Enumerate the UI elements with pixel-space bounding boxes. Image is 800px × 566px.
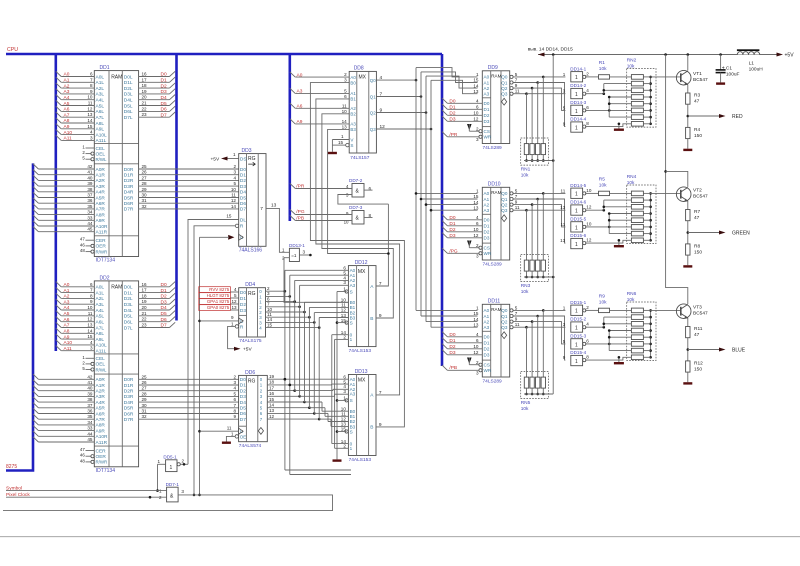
svg-text:11: 11 (561, 188, 566, 193)
wire address A1R from 8275 bus (33, 380, 94, 385)
svg-text:A11L: A11L (96, 138, 107, 144)
svg-text:23: 23 (142, 323, 148, 328)
DD13 strobe bubbles (345, 399, 348, 433)
svg-text:Q2: Q2 (370, 110, 376, 115)
svg-text:15: 15 (473, 194, 479, 199)
wire control stub (82, 156, 94, 161)
svg-text:B0: B0 (350, 80, 356, 85)
wire DD12 output B to DD8 B1 (322, 114, 393, 318)
wire address A10 from CPU bus (56, 129, 95, 135)
output arrow BLUE (688, 348, 746, 354)
svg-text:74ALS166: 74ALS166 (239, 247, 263, 253)
svg-text:9: 9 (380, 107, 383, 113)
DD3 DL wire to DD5-1 output (188, 213, 239, 464)
svg-text:D3: D3 (484, 353, 490, 358)
svg-text:D1L: D1L (124, 290, 133, 296)
svg-text:11: 11 (561, 222, 566, 227)
wire DD8 output Q1 pin 7 (376, 91, 422, 97)
svg-text:D1: D1 (449, 338, 455, 344)
svg-text:A3: A3 (484, 325, 490, 330)
wire address A11R from 8275 bus (33, 437, 94, 442)
svg-text:A0: A0 (64, 282, 70, 288)
svg-text:44: 44 (87, 431, 93, 436)
svg-text:Q0: Q0 (501, 191, 508, 196)
svg-text:4: 4 (90, 340, 93, 345)
svg-text:A10: A10 (64, 130, 73, 136)
svg-text:Q2: Q2 (501, 86, 508, 91)
svg-text:17: 17 (142, 288, 148, 293)
wire DD6 output 13 (267, 313, 348, 422)
wire data D3 to CPU bus (139, 299, 176, 305)
wire DD11 D1 from bus (442, 338, 482, 344)
wire address A5 from CPU bus (56, 100, 95, 107)
svg-text:6: 6 (476, 221, 479, 226)
DD1 right port pin names (96, 167, 109, 236)
svg-text:CS: CS (484, 129, 490, 134)
wire D2R to register (139, 386, 239, 391)
svg-text:D6: D6 (240, 201, 246, 207)
svg-text:BC547: BC547 (693, 193, 708, 199)
svg-text:10k: 10k (521, 172, 529, 178)
svg-text:DD15-4: DD15-4 (570, 350, 586, 355)
wire DD8 output Q0 pin 4 (376, 75, 417, 81)
svg-text:D5: D5 (161, 101, 167, 107)
wires RN4 common output to transistor VT2 (643, 192, 680, 242)
wire address line A0 vertical (415, 68, 478, 311)
wire DD13 output B to DD8 B3 (310, 83, 404, 427)
svg-text:A1: A1 (484, 314, 490, 319)
wire DD9 D2 from bus (442, 110, 482, 116)
svg-text:4: 4 (233, 175, 236, 180)
svg-text:28: 28 (142, 181, 148, 186)
DD10 WR pin /P input (442, 248, 482, 258)
svg-text:1: 1 (170, 465, 173, 471)
wire DD4 input GPA1 8275 (199, 299, 239, 305)
svg-text:12: 12 (87, 317, 93, 322)
svg-text:D1: D1 (484, 224, 490, 229)
svg-text:CS: CS (484, 363, 490, 368)
wire address A5R from 8275 bus (33, 403, 94, 408)
svg-text:RAM: RAM (111, 285, 122, 291)
svg-text:47: 47 (694, 215, 700, 221)
svg-text:15: 15 (226, 213, 232, 218)
svg-text:42: 42 (87, 374, 93, 379)
svg-text:1: 1 (575, 326, 578, 332)
svg-text:WR: WR (484, 368, 492, 373)
wire DD10 D2 from bus (442, 227, 482, 233)
svg-text:6: 6 (586, 105, 589, 110)
svg-text:Q2: Q2 (501, 202, 508, 207)
svg-text:9: 9 (563, 122, 566, 127)
wire address A1 from CPU bus (56, 287, 95, 293)
svg-text:22: 22 (142, 317, 148, 322)
svg-text:47: 47 (694, 99, 700, 105)
RAM DD2 IDT7134 body (94, 275, 138, 473)
svg-text:41: 41 (87, 380, 93, 385)
ground stub near RN2 (614, 123, 624, 131)
svg-text:D2: D2 (449, 227, 455, 233)
AND gate DD7-2 (346, 178, 371, 198)
wire control stub (82, 366, 94, 371)
inverter DD14-1 (563, 66, 590, 82)
svg-text:D2: D2 (449, 111, 455, 117)
wire RAM output Q2 (GREEN) (510, 200, 566, 227)
wire DD11 D3 from bus (442, 350, 482, 356)
svg-text:C1: C1 (726, 66, 732, 72)
svg-text:D2L: D2L (124, 86, 133, 92)
8275 bus label (6, 464, 17, 470)
svg-text:15: 15 (473, 78, 479, 83)
wire control stub (80, 242, 94, 247)
inverter DD15-1 (563, 300, 590, 316)
wire RAM output Q0 (BLUE) (510, 305, 566, 312)
svg-text:3: 3 (343, 389, 346, 394)
resistor network RN1 10k (521, 77, 555, 178)
DD2 left port controls (96, 356, 108, 372)
svg-text:D1L: D1L (124, 80, 133, 86)
svg-text:S: S (350, 398, 353, 403)
svg-text:D4: D4 (161, 95, 167, 101)
svg-text:A0L: A0L (96, 74, 105, 80)
svg-text:A5R: A5R (96, 406, 106, 412)
svg-text:A6L: A6L (96, 320, 105, 326)
svg-text:14: 14 (269, 403, 275, 408)
svg-text:A6R: A6R (96, 411, 106, 417)
svg-text:R4: R4 (694, 127, 700, 133)
svg-text:12: 12 (473, 233, 479, 238)
wire RN pull-up vertical (552, 55, 554, 395)
svg-text:13: 13 (473, 205, 479, 210)
svg-text:DD14-5: DD14-5 (570, 183, 586, 188)
svg-text:8275: 8275 (6, 464, 17, 470)
svg-text:D5: D5 (161, 311, 167, 317)
DD1 left port controls (96, 146, 108, 162)
svg-text:74ALS153: 74ALS153 (349, 457, 372, 463)
svg-text:RG: RG (248, 379, 256, 385)
svg-text:A11L: A11L (96, 349, 107, 355)
wire address A0 from CPU bus (56, 282, 95, 288)
wire DD6 output 12 (267, 318, 348, 427)
svg-text:74LS289: 74LS289 (483, 145, 503, 151)
svg-text:1: 1 (575, 75, 578, 81)
svg-text:DD11: DD11 (488, 299, 501, 305)
svg-text:R/WL: R/WL (96, 157, 108, 162)
svg-text:Q1: Q1 (501, 197, 508, 202)
svg-text:R1: R1 (599, 60, 605, 66)
svg-text:A6: A6 (297, 104, 303, 110)
svg-text:DL: DL (240, 217, 246, 223)
svg-text:D2: D2 (449, 344, 455, 350)
svg-text:A2: A2 (484, 202, 490, 207)
svg-text:CPU: CPU (7, 47, 18, 53)
wire D0R to register (139, 164, 239, 169)
svg-text:D4: D4 (240, 400, 246, 406)
svg-text:9: 9 (515, 83, 518, 88)
svg-text:3: 3 (90, 135, 93, 140)
svg-text:13: 13 (271, 202, 277, 208)
svg-text:Q3: Q3 (501, 325, 508, 330)
svg-text:GPA1 8275: GPA1 8275 (207, 299, 230, 304)
svg-text:DD14-4: DD14-4 (570, 117, 586, 122)
svg-text:D2: D2 (161, 294, 167, 300)
svg-text:1: 1 (575, 225, 578, 231)
svg-text:DD14-3: DD14-3 (570, 100, 586, 105)
svg-text:A4R: A4R (96, 190, 106, 196)
svg-text:WR: WR (484, 251, 492, 256)
svg-text:A2: A2 (484, 319, 490, 324)
DD10 CS pin with marker (467, 241, 482, 250)
svg-text:Q3: Q3 (370, 127, 376, 132)
svg-text:20: 20 (142, 95, 148, 100)
svg-text:12: 12 (586, 205, 592, 210)
wire control stub (80, 237, 94, 242)
svg-text:DD15-6: DD15-6 (570, 233, 586, 238)
wire address A9R from 8275 bus (33, 215, 94, 220)
svg-text:6: 6 (90, 282, 93, 287)
AND gate DD7-3 (344, 205, 372, 225)
wires RN4 inputs (585, 200, 631, 243)
label /PR at DD9 WR (449, 132, 458, 138)
svg-text:39: 39 (87, 391, 93, 396)
wire address line A2 vertical (425, 76, 478, 322)
svg-text:D4: D4 (161, 305, 167, 311)
wire CPU address bus vertical (54, 54, 57, 351)
svg-text:44: 44 (87, 221, 93, 226)
svg-text:38: 38 (87, 187, 93, 192)
DD6 open-collector diamond (258, 428, 263, 435)
svg-text:DD14-1: DD14-1 (570, 66, 586, 71)
svg-text:D7L: D7L (124, 325, 133, 331)
svg-text:A9: A9 (64, 334, 70, 340)
svg-text:D1: D1 (484, 341, 490, 346)
wire DD8 input bus branch (blue) (288, 54, 291, 221)
DD12 pin numbers (341, 266, 382, 340)
wires VT1 emitter chain, resistor R3 47 (683, 85, 700, 152)
svg-text:GREEN: GREEN (732, 231, 750, 237)
svg-text:13: 13 (342, 124, 348, 129)
svg-text:D1: D1 (161, 288, 167, 294)
svg-text:D0: D0 (240, 377, 246, 383)
svg-text:1: 1 (575, 192, 578, 198)
svg-text:DD1: DD1 (100, 65, 110, 71)
svg-text:D3: D3 (161, 89, 167, 95)
svg-text:10: 10 (87, 305, 93, 310)
svg-text:A9L: A9L (96, 337, 105, 343)
DD1 data pin names (124, 74, 134, 212)
wire address A8 from CPU bus (56, 328, 95, 334)
wire address A2 from CPU bus (56, 293, 95, 299)
wire DD10 D0 from bus (442, 215, 482, 221)
svg-text:10k: 10k (599, 66, 607, 72)
svg-text:47: 47 (694, 332, 700, 338)
RAM DD10 74LS289 body (482, 182, 509, 268)
RAM DD1 IDT7134 body (94, 65, 138, 263)
svg-text:18: 18 (142, 293, 148, 298)
svg-text:D6: D6 (240, 411, 246, 417)
RAM DD11 74LS289 body (482, 299, 509, 385)
wire /PB net from bus to DD7-3 (290, 215, 352, 221)
svg-text:RAM: RAM (491, 307, 501, 312)
svg-text:B: B (370, 425, 373, 431)
resistor network RN2 10k (627, 58, 656, 128)
inverter DD15-4 (563, 350, 590, 366)
svg-text:36: 36 (87, 198, 93, 203)
wire 8275 address bus (blue) (6, 163, 33, 470)
wire DD4 output pin 10 (266, 307, 306, 314)
svg-text:A3: A3 (484, 92, 490, 97)
svg-text:14: 14 (87, 328, 93, 333)
inverter DD14-2 (563, 83, 590, 99)
svg-text:A0R: A0R (96, 167, 106, 173)
svg-text:7: 7 (90, 288, 93, 293)
svg-text:A3R: A3R (96, 394, 106, 400)
wire address A11 from CPU bus (56, 346, 95, 352)
svg-text:A5: A5 (64, 311, 70, 317)
svg-text:A6L: A6L (96, 109, 105, 115)
svg-text:Q1: Q1 (370, 94, 376, 99)
svg-text:35: 35 (87, 414, 93, 419)
wire address line A1 vertical (420, 72, 478, 316)
wire data D3 to CPU bus (139, 89, 176, 95)
inverter DD15-2 (563, 317, 590, 333)
svg-text:18: 18 (269, 380, 275, 385)
wire D1R to register (139, 380, 239, 385)
ground stub near RN4 (614, 239, 624, 247)
inverter DD14-6 (560, 200, 592, 216)
wire right data bus vertical (blue) (441, 54, 444, 366)
wire control stub (80, 458, 94, 463)
resistor network RN3 10k (521, 193, 555, 294)
svg-text:11: 11 (227, 425, 232, 430)
wire DD10 D1 from bus (442, 221, 482, 227)
svg-text:R12: R12 (694, 361, 703, 367)
wire DD9 D0 from bus (442, 98, 482, 104)
svg-text:A6: A6 (64, 107, 70, 113)
svg-text:11: 11 (88, 311, 93, 316)
svg-text:1: 1 (233, 152, 236, 157)
svg-text:1: 1 (231, 321, 234, 326)
wire DD9 D1 from bus (442, 104, 482, 110)
DD9 address pin numbers (473, 72, 479, 94)
wire address A9R from 8275 bus (33, 425, 94, 430)
wire RAM output Q0 (RED) (510, 72, 566, 79)
resistor R5 10k (585, 177, 631, 196)
svg-text:12: 12 (231, 299, 237, 304)
svg-text:3: 3 (343, 280, 346, 285)
wire control stub (82, 145, 94, 150)
wire DD4 output pin 15 (266, 322, 321, 329)
svg-text:S: S (350, 289, 353, 294)
svg-text:A7R: A7R (96, 417, 106, 423)
svg-text:DS: DS (240, 156, 247, 162)
svg-text:2: 2 (233, 164, 236, 169)
DD6 pin names (240, 377, 263, 440)
svg-text:DD7-3: DD7-3 (349, 205, 363, 210)
wire data verticals lower extensions to bottom rails (284, 378, 351, 470)
wires RN2 common output to transistor VT1 (643, 76, 680, 126)
wire DD8 input A3 (290, 88, 349, 94)
wire address A10R from 8275 bus (33, 221, 94, 226)
svg-text:A1: A1 (484, 80, 490, 85)
DD12 pin names (350, 268, 375, 342)
svg-text:A0R: A0R (96, 377, 106, 383)
svg-text:A1: A1 (350, 91, 356, 96)
svg-text:B: B (370, 316, 373, 322)
DD9 CS pin with marker (467, 124, 482, 133)
DD8 strobe pins to ground (328, 134, 349, 154)
wire address A3R from 8275 bus (33, 181, 94, 186)
svg-text:A0: A0 (297, 72, 303, 78)
svg-text:10: 10 (473, 227, 479, 232)
svg-text:IDT7134: IDT7134 (96, 468, 115, 474)
svg-text:D7R: D7R (124, 417, 134, 423)
svg-text:A2L: A2L (96, 86, 105, 92)
svg-text:40: 40 (87, 175, 93, 180)
svg-text:D2: D2 (484, 347, 490, 352)
svg-text:8: 8 (90, 293, 93, 298)
wire data D2 to CPU bus (139, 293, 176, 299)
svg-text:46: 46 (80, 453, 85, 458)
wire control stub (82, 355, 94, 360)
DD11 address pin numbers (473, 306, 479, 328)
svg-text:=1: =1 (291, 253, 297, 258)
svg-text:13: 13 (560, 205, 566, 210)
wire D3R to register (139, 391, 239, 396)
svg-text:R8: R8 (694, 244, 700, 250)
svg-text:B3: B3 (350, 127, 356, 132)
svg-text:A9R: A9R (96, 428, 106, 434)
wire control stub (80, 248, 94, 253)
svg-text:15: 15 (269, 397, 275, 402)
resistor network RN5 10k (521, 310, 554, 411)
svg-text:D1: D1 (240, 383, 246, 389)
svg-text:2: 2 (343, 444, 346, 449)
svg-text:A8: A8 (64, 118, 70, 124)
svg-text:A6: A6 (64, 317, 70, 323)
svg-text:6: 6 (344, 94, 347, 99)
capacitor C1 100uF (716, 55, 740, 85)
svg-text:A10R: A10R (96, 224, 109, 230)
wire address A11R from 8275 bus (33, 227, 94, 232)
svg-text:32: 32 (142, 414, 148, 419)
svg-text:3: 3 (90, 346, 93, 351)
svg-text:D3R: D3R (124, 394, 134, 400)
DD11 pin names (484, 308, 508, 373)
svg-text:6: 6 (586, 338, 589, 343)
svg-text:CER: CER (96, 238, 107, 244)
svg-text:7: 7 (260, 206, 263, 212)
svg-text:A0: A0 (64, 72, 70, 78)
svg-text:A10L: A10L (96, 343, 108, 349)
svg-text:DD5-1: DD5-1 (163, 454, 177, 459)
svg-text:5: 5 (233, 391, 236, 396)
wires VT3 emitter chain, resistor R11 47 (683, 318, 702, 385)
svg-text:7: 7 (515, 194, 518, 199)
wire DD13-1 input 2 (284, 258, 348, 303)
svg-text:D4R: D4R (124, 190, 134, 196)
svg-text:D7: D7 (161, 323, 167, 329)
svg-text:5: 5 (515, 188, 518, 193)
svg-text:DD14-6: DD14-6 (570, 200, 586, 205)
wire D5R to register (139, 193, 239, 198)
svg-text:A4R: A4R (96, 400, 106, 406)
svg-text:1: 1 (575, 309, 578, 315)
wire data D1 to CPU bus (139, 287, 176, 293)
svg-text:A7: A7 (64, 112, 70, 118)
svg-text:DD4: DD4 (245, 282, 255, 288)
wire DD9 D3 from bus (442, 116, 482, 122)
svg-text:A3R: A3R (96, 184, 106, 190)
